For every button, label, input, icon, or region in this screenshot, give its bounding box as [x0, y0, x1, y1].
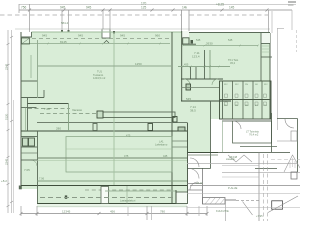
svg-text:+8.10: +8.10	[196, 181, 203, 185]
svg-text:545: 545	[196, 38, 201, 42]
bottom dim line	[21, 213, 207, 215]
wall tongue bottom y152	[188, 152, 219, 154]
east strip wall y141	[172, 140, 188, 142]
entrance box right	[272, 201, 283, 209]
svg-text:545: 545	[228, 38, 233, 42]
svg-text:945: 945	[86, 6, 92, 10]
annex door arc	[285, 119, 294, 128]
cluster wall mid y99	[220, 99, 272, 101]
tick top x222	[221, 9, 224, 12]
lower wall x202	[202, 168, 204, 204]
lower wall y168	[187, 168, 211, 170]
slope hatch	[290, 158, 295, 168]
svg-text:125: 125	[141, 6, 147, 10]
svg-text:WC: WC	[224, 84, 228, 86]
tick bottom x207	[206, 212, 209, 215]
bottom dim tick x199	[198, 206, 200, 216]
wall top-left step	[21, 32, 32, 37]
wing corridor wall y79	[181, 78, 223, 80]
wall left small y136	[21, 136, 37, 138]
porch grid line left	[102, 10, 104, 29]
svg-text:7.05: 7.05	[24, 168, 30, 172]
entrance box diagonal	[22, 39, 29, 44]
porch edge y190	[187, 189, 202, 191]
walkway line right	[188, 10, 190, 31]
bottom dim tick x21	[20, 206, 22, 216]
tick bottom x21	[20, 212, 23, 215]
left dim line inner	[11, 30, 13, 213]
porch door mark	[104, 41, 109, 44]
grid line x114	[113, 32, 115, 185]
hall dashed y108	[28, 108, 70, 110]
site vertical x259	[258, 153, 260, 222]
post vertical x225	[225, 200, 227, 221]
wall hall bottom y185	[21, 185, 187, 187]
svg-text:445: 445	[163, 154, 168, 158]
bottom dim tick x128	[127, 207, 129, 216]
tick bottom x37	[36, 212, 39, 215]
dimension tick left end	[18, 4, 20, 13]
wall wing right x270	[269, 33, 271, 119]
stair box left	[23, 138, 29, 146]
strip vertical x127	[126, 186, 128, 204]
stair arrows corridor	[228, 155, 252, 162]
dashed vertical x267	[267, 154, 269, 221]
dock line y160	[37, 160, 187, 162]
svg-text:7.08: 7.08	[44, 107, 50, 111]
vestibule wall y44	[182, 43, 196, 45]
line y172 right	[222, 172, 300, 174]
bottom dim tick x152	[151, 206, 153, 220]
column base x68	[68, 30, 70, 33]
toilet cluster outline	[220, 81, 272, 119]
porch grid line right	[109, 10, 111, 29]
hall dashed line y38	[32, 38, 172, 40]
white cut bottom-left	[21, 189, 37, 203]
strip door box	[101, 187, 109, 204]
svg-text:WC: WC	[245, 105, 249, 107]
strip dashed centerline	[40, 197, 174, 199]
dashed line y159 right	[271, 159, 300, 161]
wall tongue bottom second	[188, 154, 219, 156]
wall left room x44	[43, 90, 45, 98]
wall x27	[27, 98, 29, 131]
wing room wall x190	[190, 67, 192, 79]
svg-text:123,4: 123,4	[192, 54, 200, 58]
top dim down-turn right	[291, 10, 293, 30]
wing room wall x196	[195, 67, 197, 79]
stairwell landing white	[262, 33, 271, 43]
grid line vertical x268	[268, 10, 270, 33]
wall hall top edge	[32, 31, 182, 33]
ramp diagonal corner	[268, 196, 298, 213]
hall dim line y43	[22, 43, 170, 45]
white cut top-left notch	[21, 32, 32, 37]
tick top x64	[63, 9, 66, 12]
site line y207	[187, 207, 300, 209]
column base x114	[113, 31, 115, 34]
wall left x25	[25, 108, 27, 132]
dimension line top dark	[19, 9, 292, 11]
wall x222 light	[222, 121, 224, 152]
strip lower band	[37, 204, 187, 207]
svg-text:38,5: 38,5	[190, 108, 196, 112]
svg-text:WC: WC	[264, 84, 268, 86]
room tongue green fill	[187, 119, 210, 152]
column line x62	[61, 10, 63, 32]
bottom dim tick x37	[36, 206, 38, 216]
left dim line outer	[7, 30, 9, 213]
wall x68	[68, 104, 70, 132]
wall x37	[37, 131, 39, 204]
svg-text:756: 756	[21, 6, 27, 10]
white cut walkway	[182, 10, 190, 31]
white vestibule	[182, 31, 189, 38]
svg-text:145: 145	[229, 6, 235, 10]
east strip wall y147	[172, 146, 188, 148]
svg-text:Lahettamo: Lahettamo	[155, 143, 168, 147]
dock line y158	[37, 157, 187, 159]
corridor line y87	[182, 87, 219, 89]
left dim line third	[13, 100, 15, 213]
svg-text:475: 475	[124, 154, 129, 158]
corridor line y163	[187, 163, 298, 165]
corridor door arc right	[212, 79, 218, 85]
wall strip bottom y203	[37, 203, 187, 205]
cluster fixtures row2	[225, 102, 267, 106]
lower door arc y169	[189, 169, 199, 179]
wall left room y97	[21, 97, 44, 99]
wall hall right x172	[171, 32, 173, 204]
tick top x267	[266, 9, 269, 12]
door arc left room	[31, 160, 37, 166]
cluster wall x253	[252, 81, 254, 119]
wall stairwell y43	[261, 43, 270, 45]
wall stairwell x261	[260, 33, 262, 81]
entrance box top-left	[22, 38, 30, 44]
dashed vertical x263	[263, 154, 265, 221]
dock bar x178	[178, 127, 185, 131]
mat hatch lines	[205, 198, 225, 204]
svg-text:14k: 14k	[182, 6, 188, 10]
dock line y181	[37, 180, 187, 182]
right dim vertical x277	[277, 28, 279, 130]
room main hall green fill	[21, 32, 187, 203]
svg-text:+7.95: +7.95	[256, 214, 263, 218]
dimension line top light	[19, 4, 296, 6]
corridor door arc left	[184, 79, 190, 85]
dashed line y113	[40, 113, 96, 115]
site line y165	[222, 165, 259, 167]
dock line y122	[37, 122, 187, 124]
mat edge dark	[225, 199, 236, 201]
tick bottom x187	[186, 212, 189, 215]
bottom dim tick x207	[206, 206, 208, 216]
conveyor band	[103, 112, 175, 118]
mat edge dashed	[236, 199, 259, 201]
wall x187	[187, 123, 189, 204]
svg-text:2630: 2630	[206, 42, 213, 46]
lower room door arc 2	[190, 182, 198, 190]
svg-text:8145: 8145	[60, 40, 67, 44]
svg-text:945: 945	[78, 33, 83, 37]
small box right wall	[291, 172, 297, 179]
grid line vertical x29	[29, 4, 31, 32]
wall left small y147	[21, 146, 37, 148]
zone rect loading	[66, 137, 172, 173]
svg-text:Lastauslaituri: Lastauslaituri	[120, 199, 136, 203]
lower room door arc 1	[190, 158, 199, 167]
bottom dim tick x187	[186, 206, 188, 216]
zone line y149	[66, 148, 172, 150]
svg-text:2345: 2345	[5, 63, 9, 70]
column line x68	[68, 10, 70, 32]
office room box	[233, 121, 272, 143]
cluster wall x243	[242, 81, 244, 119]
vestibule box	[183, 38, 189, 44]
site line y185	[190, 185, 300, 187]
right annex outer wall	[297, 119, 299, 173]
ticks y43	[47, 43, 161, 45]
svg-text:PH: PH	[245, 84, 248, 86]
svg-text:P-ALUE: P-ALUE	[228, 186, 238, 190]
ramp diagonal 1	[243, 202, 253, 216]
porch box top wall	[102, 29, 110, 38]
dock box x173	[173, 117, 177, 123]
wall left small y160	[21, 159, 37, 161]
right annex top wall	[277, 118, 298, 120]
svg-text:1250: 1250	[135, 62, 142, 66]
svg-text:780: 780	[160, 209, 165, 213]
grid x37 upper	[37, 40, 39, 98]
wall corridor y152	[218, 152, 290, 154]
walkway line left	[181, 10, 183, 31]
wall office top y121	[222, 120, 271, 122]
svg-text:WC: WC	[235, 84, 239, 86]
cluster wall x232	[232, 81, 234, 119]
svg-text:Varasto: Varasto	[72, 108, 82, 112]
slope triangle	[284, 155, 300, 172]
room right wing green fill	[181, 33, 270, 119]
lower wall y183	[187, 183, 202, 185]
grid x31 upper	[30, 55, 32, 78]
vestibule dark mark	[191, 40, 194, 44]
dock box mid	[148, 124, 153, 131]
svg-text:7.06: 7.06	[39, 177, 45, 181]
svg-text:45,2: 45,2	[230, 61, 236, 65]
wall corner hatch bottom-left	[19, 186, 22, 190]
tick top x29	[28, 9, 31, 12]
strip marker box	[65, 195, 67, 198]
wing dim y45 ticks	[182, 45, 259, 47]
annex line y141	[277, 140, 297, 142]
svg-text:12345: 12345	[62, 209, 71, 213]
wing shaft box	[186, 84, 191, 90]
tick bottom x147	[146, 212, 149, 215]
strip lower band edge	[37, 206, 187, 208]
svg-text:280: 280	[56, 127, 61, 131]
office door arc	[233, 121, 241, 129]
svg-text:1234,5 m2: 1234,5 m2	[93, 76, 106, 80]
stair treads	[262, 46, 270, 52]
annex fixture box	[291, 131, 297, 141]
svg-text:945: 945	[120, 33, 125, 37]
wing dim ticks	[182, 66, 220, 68]
tick bottom x99	[98, 212, 101, 215]
site line y193	[187, 193, 300, 195]
grid line vertical x272	[271, 11, 273, 33]
wall y168	[255, 168, 277, 170]
svg-text:545: 545	[186, 97, 191, 101]
svg-text:+8.048: +8.048	[229, 155, 238, 159]
right dashed vertical x296	[296, 30, 298, 52]
text top-right corner	[288, 1, 296, 3]
setback dashed line top right	[190, 14, 269, 16]
setback dashed line top left	[0, 14, 181, 16]
wing dim line y45	[183, 45, 258, 47]
wall y131	[21, 130, 187, 132]
tick top x103	[102, 9, 105, 12]
wall y101	[181, 100, 231, 102]
svg-text:960: 960	[155, 33, 160, 37]
svg-text:KULKUTIE: KULKUTIE	[216, 209, 229, 213]
column base x62	[61, 30, 63, 33]
wall x271	[271, 113, 273, 152]
cluster wall x222	[222, 81, 224, 119]
cluster wall x262	[261, 81, 263, 119]
svg-text:+8.25: +8.25	[216, 3, 224, 7]
outer face line	[15, 28, 270, 30]
svg-text:945: 945	[42, 33, 47, 37]
wall left y153	[21, 152, 37, 154]
wall x210 tongue	[210, 101, 212, 169]
svg-text:76,4 m2: 76,4 m2	[249, 133, 259, 137]
wing dim line y66	[178, 66, 230, 68]
wall hall left	[20, 32, 22, 189]
wall wing top edge	[189, 32, 270, 34]
wall y103	[27, 103, 69, 105]
tick top x152	[151, 9, 154, 12]
wall stairwell y57	[261, 56, 272, 58]
conveyor end box	[97, 111, 103, 118]
stair box right	[29, 138, 35, 146]
wing room wall x210	[209, 50, 211, 79]
left dim tick a	[7, 36, 14, 207]
wall left room y81	[21, 80, 38, 82]
svg-text:475: 475	[126, 134, 131, 138]
annex wall y146	[240, 146, 277, 148]
wall left y107	[21, 107, 37, 109]
svg-text:455: 455	[184, 63, 189, 67]
wing room wall x204	[204, 50, 206, 79]
text top-right corner 2	[288, 4, 294, 5]
hall dim line y66	[38, 65, 172, 67]
tick top x173	[172, 9, 175, 12]
bottom dim tick x147	[146, 206, 148, 220]
dock box left	[93, 124, 97, 131]
svg-text:456: 456	[110, 209, 115, 213]
right dim tick top	[277, 28, 284, 30]
strip dashed upper	[85, 189, 172, 191]
ramp box	[176, 192, 188, 204]
svg-text:584-2: 584-2	[61, 21, 69, 25]
cluster fixtures row1	[225, 94, 267, 98]
svg-text:+8.2: +8.2	[1, 179, 7, 183]
site line y177	[222, 176, 259, 178]
wall wing left x181	[181, 31, 183, 101]
tick top x110	[109, 9, 112, 12]
ramp wall x176	[175, 190, 177, 204]
svg-text:5120: 5120	[5, 113, 9, 120]
strip dim line y191	[105, 190, 176, 192]
svg-text:945: 945	[60, 6, 66, 10]
svg-text:2345: 2345	[5, 158, 9, 165]
entrance mat hatched	[203, 198, 226, 205]
